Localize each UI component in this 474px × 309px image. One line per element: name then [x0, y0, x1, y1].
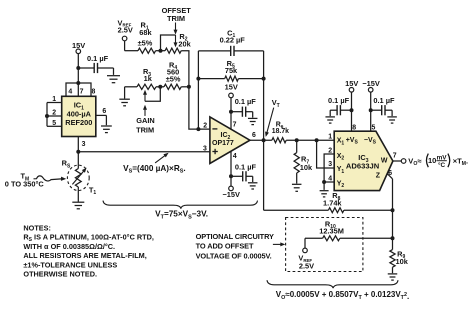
terminal 15V (IC3 pin 8): [345, 79, 358, 131]
svg-text:−15V: −15V: [362, 79, 380, 88]
svg-text:−15V: −15V: [222, 190, 240, 199]
resistor R10 12.35M: [305, 219, 393, 248]
svg-text:VT=75×VS−3V.: VT=75×VS−3V.: [155, 209, 208, 220]
junction Z/R10: [391, 236, 395, 240]
resistor R5 75k (feedback): [198, 59, 263, 81]
ground (IC3 -supply cap): [387, 117, 397, 123]
wire 15V to IC1 pins: [77, 54, 79, 97]
svg-text:NOTES:: NOTES:: [23, 223, 51, 232]
svg-text:±1%-TOLERANCE UNLESS: ±1%-TOLERANCE UNLESS: [23, 260, 117, 269]
junction R5/C1 left: [196, 77, 200, 81]
label optional circuitry: [196, 232, 286, 260]
svg-text:12.35M: 12.35M: [319, 227, 344, 236]
ground (IC1 pin 6): [101, 126, 112, 133]
resistor R1 68k ±5%: [138, 21, 156, 54]
svg-text:Z: Z: [376, 173, 381, 180]
svg-text:5: 5: [371, 124, 375, 131]
label OFFSET TRIM with pointer: [162, 6, 192, 35]
svg-text:×TM.: ×TM.: [453, 156, 468, 167]
svg-text:WITH α OF 0.00385Ω/Ω/°C.: WITH α OF 0.00385Ω/Ω/°C.: [23, 242, 115, 251]
svg-text:4: 4: [233, 153, 237, 160]
junction R5/C1 right: [262, 77, 266, 81]
svg-text:W: W: [381, 157, 388, 164]
svg-text:1.74k: 1.74k: [323, 199, 342, 208]
svg-text:3: 3: [203, 145, 207, 152]
svg-text:T1: T1: [89, 185, 97, 196]
svg-text:6: 6: [102, 108, 106, 115]
junction -input: [196, 127, 200, 131]
capacitor 0.1uF (IC2 -supply): [231, 163, 256, 182]
IC2 pin labels: [203, 122, 256, 161]
wire feedback right vertical / VT to R8: [263, 51, 265, 210]
junction Z/R8: [391, 208, 395, 212]
op-amp IC2 OP177: [210, 117, 250, 164]
svg-text:VO≈: VO≈: [408, 156, 421, 167]
junction output/feedback: [262, 138, 266, 142]
terminal 15V (IC1 supply): [72, 41, 85, 54]
svg-text:10: 10: [428, 156, 436, 165]
svg-text:400-µA: 400-µA: [67, 109, 92, 118]
svg-text:10k: 10k: [396, 257, 409, 266]
svg-text:±5%: ±5%: [166, 75, 181, 84]
IC1 pin 6 to ground: [96, 108, 107, 125]
junction (pins 4-7-8 bracket): [76, 81, 80, 85]
svg-text:0.1 µF: 0.1 µF: [328, 96, 350, 105]
svg-text:±5%: ±5%: [138, 39, 153, 48]
junction X2/Y2: [322, 180, 326, 184]
junction R1/R2/wiper: [159, 49, 163, 53]
svg-text:OTHERWISE NOTED.: OTHERWISE NOTED.: [23, 270, 97, 279]
svg-text:4: 4: [328, 175, 332, 182]
IC1 pins 1,2,5 tie: [47, 96, 62, 127]
svg-text:0 TO 350°C: 0 TO 350°C: [5, 180, 45, 189]
IC1 pins 4,7,8 bracket: [66, 83, 95, 96]
resistor R7 10k: [294, 140, 313, 183]
wire IC2 output: [250, 139, 272, 141]
svg-text:2.5V: 2.5V: [118, 26, 133, 35]
svg-text:7: 7: [393, 153, 397, 160]
R3 wiper tie: [143, 87, 160, 102]
svg-text:TO ADD OFFSET: TO ADD OFFSET: [196, 242, 254, 251]
wire feedback left vertical: [197, 51, 199, 129]
resistor R2 20k (offset trim pot): [165, 32, 192, 54]
capacitor 0.1uF (IC3 +supply): [328, 96, 352, 116]
wire Y2 to ground: [324, 182, 334, 190]
svg-text:3: 3: [82, 141, 86, 148]
wire Z pin: [387, 174, 392, 250]
multiplier IC3 AD633JN: [334, 131, 393, 190]
junction (pin 2 tie): [45, 114, 49, 118]
svg-text:15V: 15V: [345, 79, 358, 88]
svg-text:GAIN: GAIN: [136, 116, 154, 125]
label VS=(400uA)xRS with pointer: [123, 153, 186, 175]
svg-text:18.7k: 18.7k: [272, 128, 289, 135]
wire VS to IC2 +input: [78, 151, 210, 153]
svg-text:AD633JN: AD633JN: [346, 162, 379, 171]
svg-text:5: 5: [52, 120, 56, 127]
svg-text:8: 8: [352, 124, 356, 131]
wire X1 to Y1: [317, 140, 335, 168]
svg-text:0.1 µF: 0.1 µF: [235, 97, 257, 106]
label GAIN TRIM with pointer: [136, 105, 155, 135]
ground (IC3 +supply cap): [325, 117, 335, 123]
label TM input: [5, 172, 66, 189]
svg-text:ALL RESISTORS ARE METAL-FILM,: ALL RESISTORS ARE METAL-FILM,: [23, 251, 146, 260]
terminal VREF 2.5V (optional): [298, 248, 314, 270]
svg-text:OPTIONAL CIRCUITRY: OPTIONAL CIRCUITRY: [196, 232, 274, 241]
IC1 pin 3: [78, 137, 85, 152]
svg-text:0.1 µF: 0.1 µF: [87, 54, 109, 63]
resistor R6 18.7k: [272, 121, 334, 142]
brace VO formula: [267, 280, 398, 288]
junction (pin5 bypass): [369, 108, 373, 112]
svg-text:1: 1: [52, 96, 56, 103]
junction R4/-input: [187, 85, 191, 89]
junction X1/Y1 tie: [315, 138, 319, 142]
svg-text:8: 8: [91, 89, 95, 96]
terminal 15V (IC2 pin 7): [225, 83, 238, 130]
svg-text:2.5V: 2.5V: [299, 261, 314, 270]
wire VREF to R1: [124, 41, 126, 51]
svg-text:7: 7: [233, 122, 237, 129]
svg-text:°C: °C: [438, 161, 446, 169]
junction (pin8 bypass): [350, 108, 354, 112]
terminal -15V (IC3 pin 5): [362, 79, 380, 131]
svg-text:10k: 10k: [300, 163, 313, 172]
svg-text:3: 3: [328, 161, 332, 168]
capacitor 0.1uF (IC1 bypass): [78, 54, 113, 75]
svg-text:6: 6: [252, 132, 256, 139]
svg-text:68k: 68k: [139, 28, 152, 37]
ground (R3 left): [125, 87, 137, 99]
ground (IC2 +supply cap): [248, 118, 258, 124]
svg-text:7: 7: [80, 89, 84, 96]
svg-text:TRIM: TRIM: [136, 126, 154, 135]
svg-text:15V: 15V: [225, 83, 238, 92]
IC1 REF200: [62, 96, 96, 136]
resistor R3 1k (gain trim pot): [137, 67, 156, 89]
ground (R9): [388, 274, 398, 280]
potentiometer R2 20k wiper tie: [161, 35, 178, 51]
svg-text:0.1 µF: 0.1 µF: [373, 96, 395, 105]
junction (pin7 bypass): [229, 110, 233, 114]
svg-text:VT: VT: [272, 98, 280, 109]
junction R3/R4/wiper: [158, 85, 162, 89]
svg-text:4: 4: [68, 89, 72, 96]
optional circuitry dashed box: [286, 218, 363, 272]
resistor R8 1.74k: [264, 191, 393, 213]
svg-text:2: 2: [328, 148, 332, 155]
resistor R4 560 ±5%: [156, 60, 189, 89]
brace VT formula: [103, 201, 258, 209]
junction (15V / 0.1uF): [76, 66, 80, 70]
IC3 pin labels: [328, 124, 397, 182]
svg-text:TRIM: TRIM: [167, 14, 185, 23]
node VS junction: [76, 150, 80, 154]
svg-text:1: 1: [328, 134, 332, 141]
ground (Y2): [320, 191, 329, 197]
svg-text:20k: 20k: [178, 40, 191, 49]
ground (R7): [292, 184, 302, 191]
wire X2 to Y2: [324, 154, 334, 182]
junction (pin4 bypass): [229, 174, 233, 178]
junction R6/R7: [295, 138, 299, 142]
wire R2 to -input: [181, 51, 210, 129]
svg-text:OP177: OP177: [212, 140, 234, 147]
capacitor 0.1uF (IC2 +supply): [231, 97, 256, 118]
svg-text:2: 2: [52, 110, 56, 117]
label VT with pointer: [265, 98, 280, 137]
svg-text:2: 2: [203, 122, 207, 129]
svg-text:VS=(400 µA)×RS.: VS=(400 µA)×RS.: [123, 164, 186, 175]
ground (IC1 bypass cap): [107, 76, 120, 83]
terminal -15V (IC2 pin 4): [222, 151, 240, 199]
svg-text:0.1 µF: 0.1 µF: [235, 163, 257, 172]
svg-text:VO≈0.0005V + 0.8507VT + 0.0123: VO≈0.0005V + 0.8507VT + 0.0123VT2.: [276, 290, 409, 301]
svg-text:RS: RS: [62, 159, 71, 170]
notes text: [23, 223, 154, 278]
terminal VREF 2.5V: [118, 18, 133, 40]
RTD RS (platinum sensor T1): [62, 152, 97, 202]
wire R1 to R2: [156, 50, 166, 52]
svg-text:REF200: REF200: [65, 118, 92, 127]
svg-text:75k: 75k: [225, 66, 238, 75]
IC3 W output terminal: [393, 159, 406, 164]
label VO output formula: [408, 154, 468, 169]
resistor R9 10k: [390, 249, 409, 273]
capacitor 0.1uF (IC3 -supply): [371, 96, 395, 116]
svg-text:0.22 µF: 0.22 µF: [220, 36, 246, 45]
ground (RTD): [72, 202, 84, 209]
svg-text:1k: 1k: [144, 74, 153, 83]
capacitor C1 0.22uF (feedback): [198, 28, 263, 56]
ground (IC2 -supply cap): [248, 183, 258, 189]
svg-text:VOLTAGE OF 0.0005V.: VOLTAGE OF 0.0005V.: [196, 251, 272, 260]
